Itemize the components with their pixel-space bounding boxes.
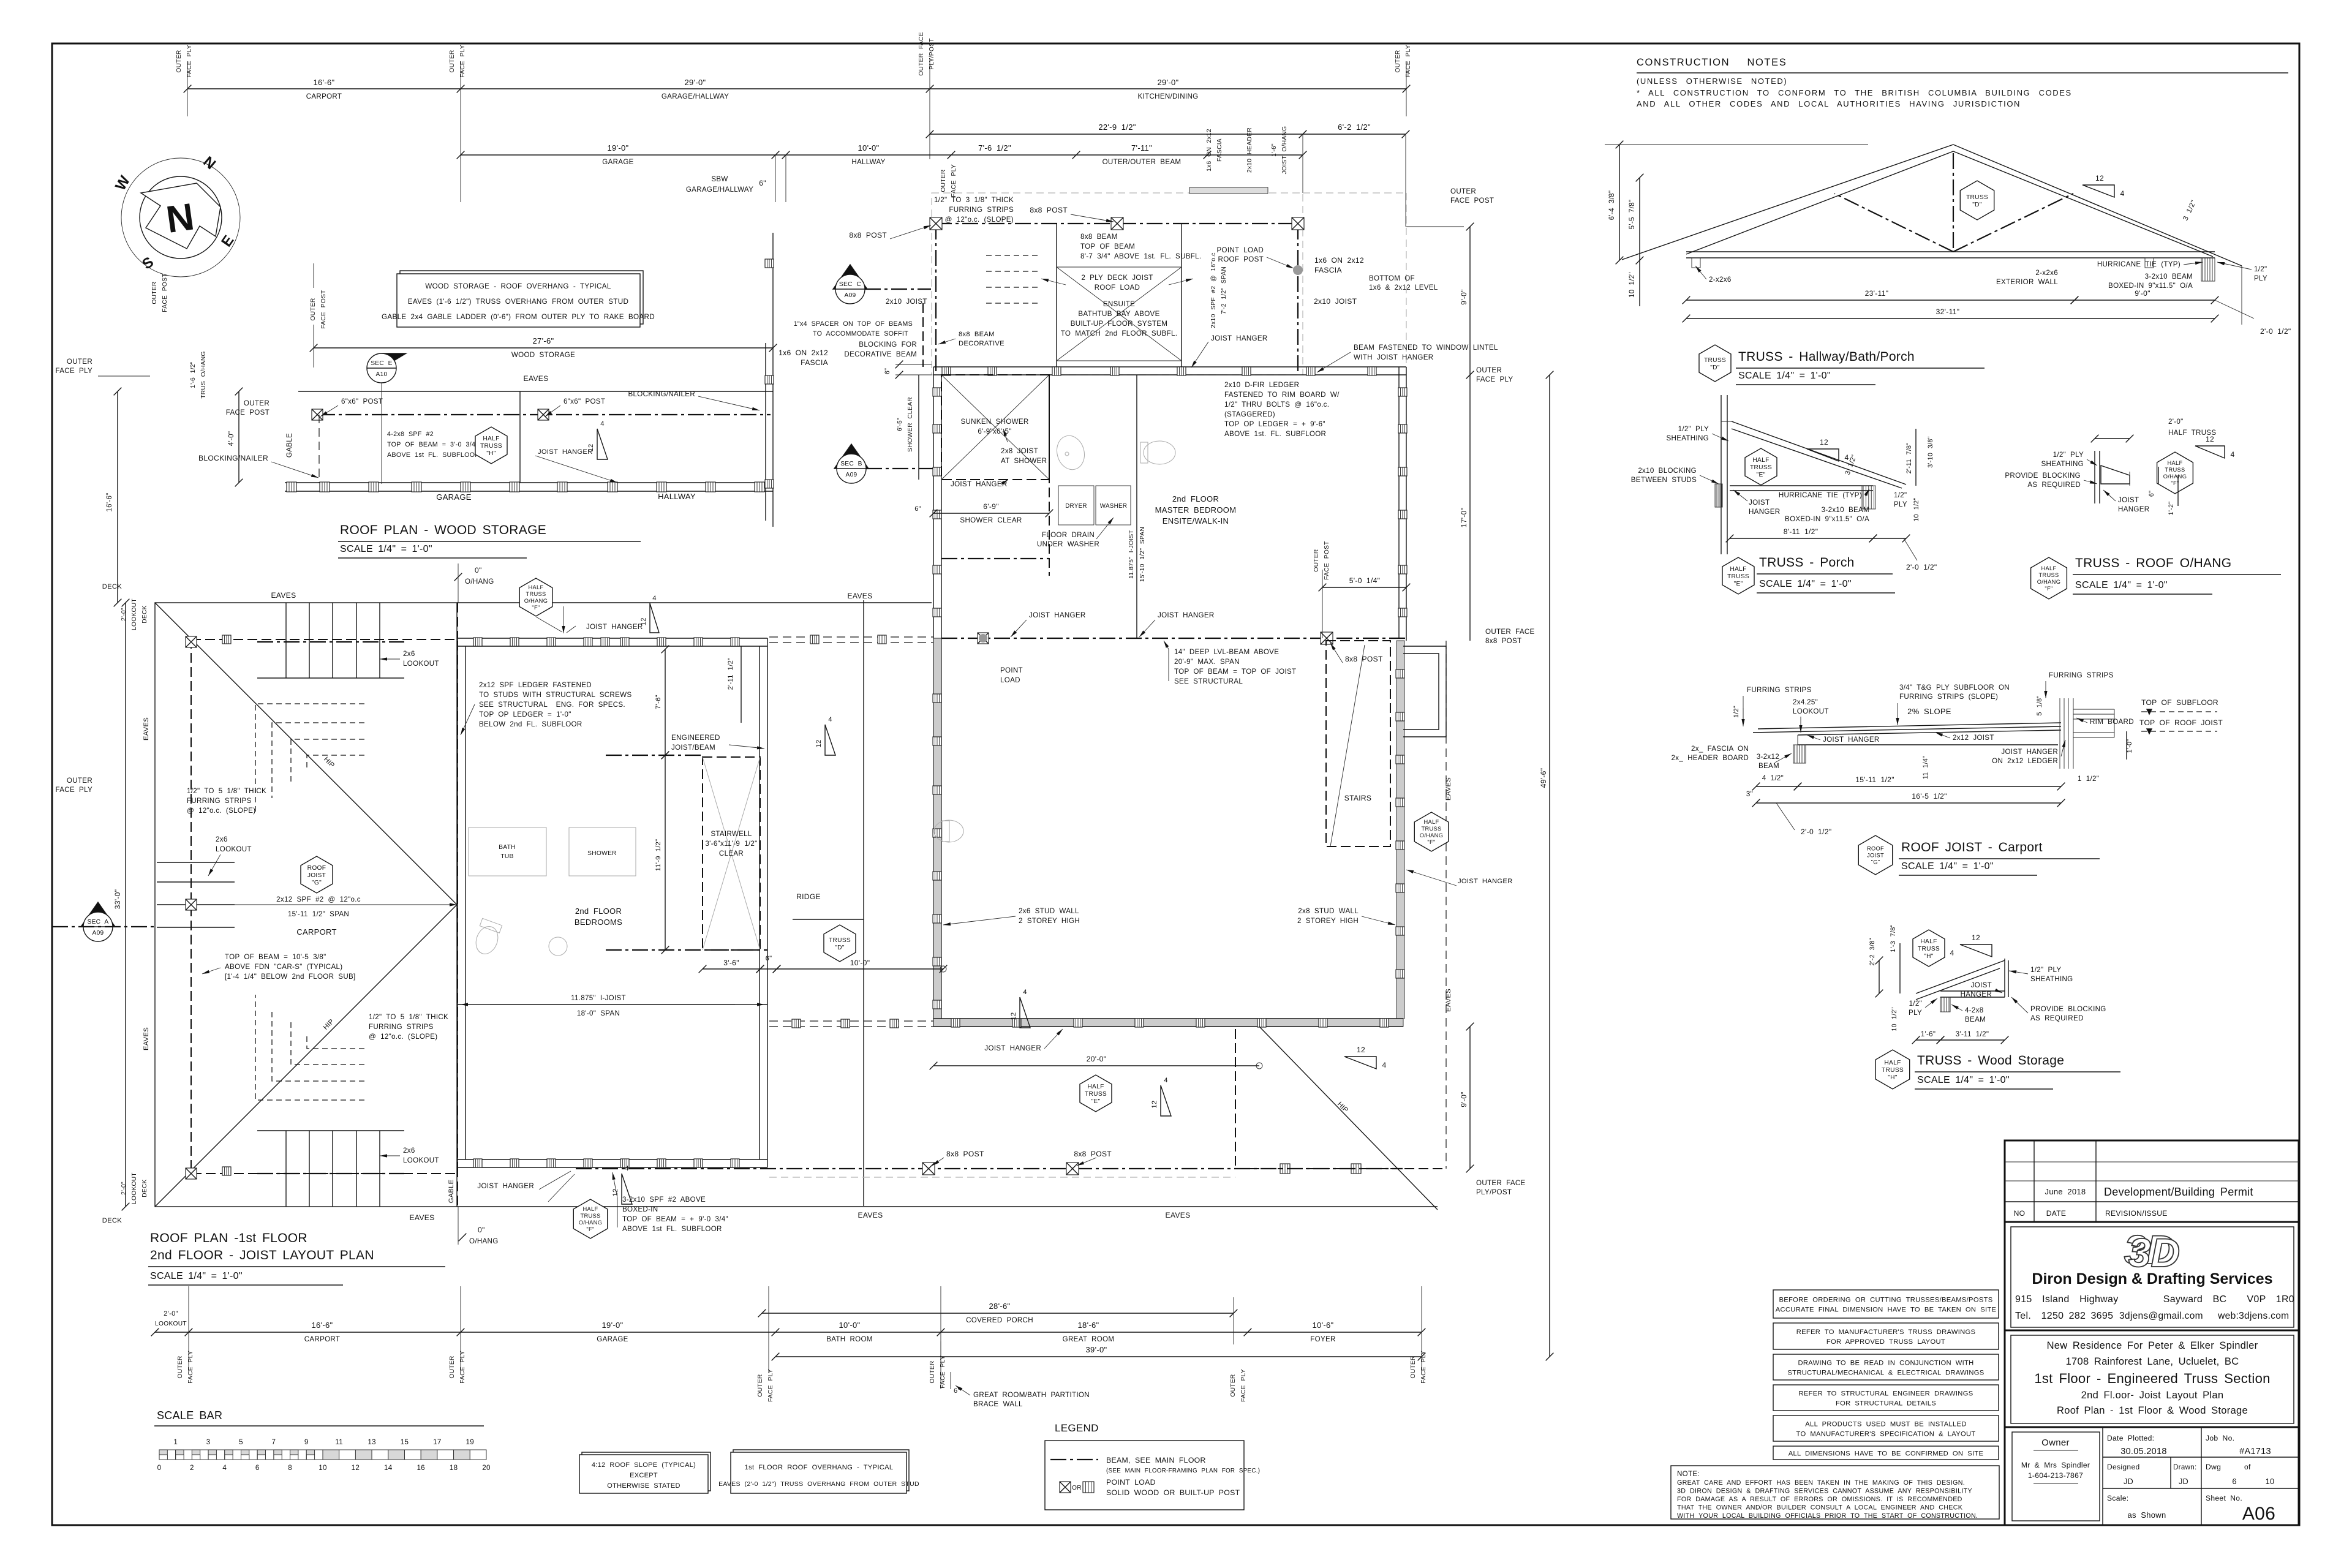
svg-text:GARAGE/HALLWAY: GARAGE/HALLWAY (686, 186, 753, 194)
svg-text:EAVES (2'-0 1/2") TRUSS OVERHA: EAVES (2'-0 1/2") TRUSS OVERHANG FROM OU… (718, 1480, 919, 1488)
svg-text:DECK: DECK (102, 583, 123, 590)
svg-text:BETWEEN STUDS: BETWEEN STUDS (1631, 476, 1697, 484)
svg-text:HALF: HALF (583, 1206, 598, 1212)
svg-text:"G": "G" (312, 880, 322, 886)
svg-text:THAT THE OWNER AND/OR BUILDER: THAT THE OWNER AND/OR BUILDER CONSULT A … (1677, 1504, 1963, 1512)
svg-text:2x8 STUD WALL: 2x8 STUD WALL (1298, 907, 1359, 915)
svg-text:FURRING STRIPS: FURRING STRIPS (1747, 686, 1812, 694)
svg-text:1/2" PLY: 1/2" PLY (1678, 425, 1709, 433)
svg-text:JOIST: JOIST (307, 872, 326, 879)
svg-text:REVISION/ISSUE: REVISION/ISSUE (2105, 1209, 2168, 1218)
svg-text:SEC A: SEC A (87, 919, 108, 925)
svg-text:BATH ROOM: BATH ROOM (826, 1335, 873, 1343)
svg-text:FASCIA: FASCIA (801, 358, 828, 367)
svg-text:WOOD STORAGE: WOOD STORAGE (511, 351, 575, 359)
svg-text:8x8 BEAM: 8x8 BEAM (959, 331, 995, 338)
svg-text:ENGINEERED: ENGINEERED (671, 734, 720, 742)
svg-text:JD: JD (2179, 1477, 2188, 1486)
svg-text:5'-0 1/4": 5'-0 1/4" (1349, 576, 1380, 585)
svg-text:10: 10 (2266, 1477, 2275, 1486)
svg-text:ENSITE/WALK-IN: ENSITE/WALK-IN (1163, 516, 1229, 526)
svg-text:2x4.25": 2x4.25" (1793, 698, 1818, 706)
svg-text:BELOW 2nd FL. SUBFLOOR: BELOW 2nd FL. SUBFLOOR (479, 720, 582, 728)
svg-text:TRUSS: TRUSS (1750, 464, 1772, 471)
svg-text:2-x2x6: 2-x2x6 (1709, 276, 1732, 284)
svg-text:3": 3" (1746, 790, 1753, 798)
svg-text:OUTER: OUTER (1476, 366, 1502, 374)
svg-text:10'-0": 10'-0" (839, 1321, 861, 1330)
svg-text:1/2" PLY: 1/2" PLY (2030, 966, 2061, 974)
svg-text:FACE PLY: FACE PLY (767, 1369, 774, 1402)
svg-text:O/HANG: O/HANG (1420, 832, 1443, 839)
svg-text:1x6 ON 2x12: 1x6 ON 2x12 (778, 349, 828, 357)
svg-text:LOOKOUT: LOOKOUT (131, 598, 138, 630)
svg-text:FOR APPROVED TRUSS LAYOUT: FOR APPROVED TRUSS LAYOUT (1826, 1338, 1945, 1346)
svg-text:1/2" TO 5 1/8" THICK: 1/2" TO 5 1/8" THICK (187, 787, 266, 795)
svg-text:OUTER: OUTER (244, 399, 269, 407)
svg-text:FACE PLY: FACE PLY (1405, 45, 1412, 78)
svg-text:GARAGE: GARAGE (597, 1335, 628, 1343)
svg-text:10'-0": 10'-0" (858, 143, 880, 153)
svg-text:TOP OF BEAM = TOP OF JOIST: TOP OF BEAM = TOP OF JOIST (1174, 668, 1296, 676)
svg-text:ROOF: ROOF (307, 865, 326, 872)
svg-text:FURRING STRIPS: FURRING STRIPS (949, 206, 1014, 214)
svg-text:7'-6": 7'-6" (655, 695, 662, 709)
svg-text:0": 0" (478, 1226, 485, 1234)
svg-text:3-2x10 BEAM: 3-2x10 BEAM (2145, 273, 2193, 281)
svg-text:6"x6" POST: 6"x6" POST (563, 398, 605, 405)
svg-text:2x10 SPF #2 @ 16"o.c: 2x10 SPF #2 @ 16"o.c (1210, 252, 1217, 328)
svg-text:17: 17 (433, 1438, 442, 1446)
svg-text:4:12 ROOF SLOPE (TYPICAL): 4:12 ROOF SLOPE (TYPICAL) (592, 1461, 696, 1469)
svg-text:1-604-213-7867: 1-604-213-7867 (2028, 1471, 2083, 1480)
svg-text:1'-2": 1'-2" (2168, 502, 2175, 516)
svg-text:SHOWER CLEAR: SHOWER CLEAR (907, 397, 914, 452)
svg-text:15'-10 1/2" SPAN: 15'-10 1/2" SPAN (1139, 527, 1146, 582)
svg-text:2% SLOPE: 2% SLOPE (1907, 707, 1951, 716)
svg-text:Development/Building Permit: Development/Building Permit (2104, 1186, 2253, 1198)
svg-text:UNDER WASHER: UNDER WASHER (1037, 540, 1099, 548)
svg-text:OUTER: OUTER (1230, 1374, 1237, 1396)
svg-text:2nd FLOOR: 2nd FLOOR (1172, 494, 1219, 503)
svg-text:2'-11 1/2": 2'-11 1/2" (727, 658, 734, 690)
svg-text:FURRING STRIPS: FURRING STRIPS (187, 797, 252, 805)
svg-text:"E": "E" (1091, 1098, 1101, 1105)
svg-text:1/2" PLY: 1/2" PLY (2053, 451, 2084, 459)
svg-text:4: 4 (1164, 1077, 1168, 1084)
svg-text:(UNLESS OTHERWISE NOTED): (UNLESS OTHERWISE NOTED) (1637, 77, 1787, 86)
svg-text:TOP OF BEAM = 10'-5 3/8": TOP OF BEAM = 10'-5 3/8" (225, 953, 326, 961)
svg-text:WOOD STORAGE - ROOF OVERHANG -: WOOD STORAGE - ROOF OVERHANG - TYPICAL (425, 282, 611, 290)
svg-text:Date Plotted:: Date Plotted: (2107, 1434, 2154, 1442)
svg-text:FACE PLY: FACE PLY (1240, 1369, 1247, 1402)
svg-text:TO ACCOMMODATE SOFFIT: TO ACCOMMODATE SOFFIT (813, 330, 908, 337)
svg-text:EXCEPT: EXCEPT (630, 1472, 658, 1479)
svg-text:4: 4 (2230, 450, 2234, 459)
svg-text:JOIST HANGER: JOIST HANGER (1158, 611, 1215, 619)
svg-text:11.875" I-JOIST: 11.875" I-JOIST (571, 994, 626, 1002)
svg-text:GREAT ROOM/BATH PARTITION: GREAT ROOM/BATH PARTITION (973, 1391, 1090, 1399)
svg-text:12: 12 (1820, 438, 1828, 447)
svg-text:19'-0": 19'-0" (602, 1321, 624, 1330)
svg-text:OUTER: OUTER (177, 1355, 184, 1378)
svg-text:"G": "G" (1871, 859, 1880, 865)
svg-text:MASTER BEDROOM: MASTER BEDROOM (1155, 505, 1237, 514)
svg-text:BEAM: BEAM (1758, 762, 1779, 770)
svg-text:HALLWAY: HALLWAY (851, 158, 885, 166)
svg-text:PLY: PLY (1909, 1009, 1922, 1017)
svg-text:13: 13 (367, 1438, 376, 1446)
svg-text:2nd FLOOR: 2nd FLOOR (575, 907, 622, 916)
svg-text:FACE PLY: FACE PLY (56, 367, 92, 375)
svg-text:#A1713: #A1713 (2239, 1447, 2271, 1457)
svg-text:TUB: TUB (500, 853, 513, 860)
svg-text:BEAM FASTENED TO WINDOW LINTEL: BEAM FASTENED TO WINDOW LINTEL (1354, 344, 1498, 352)
svg-text:Job No.: Job No. (2206, 1434, 2234, 1442)
svg-text:DECK: DECK (141, 1179, 148, 1197)
svg-text:HALF: HALF (2168, 460, 2183, 466)
svg-text:29'-0": 29'-0" (1158, 78, 1179, 87)
svg-text:8x8 POST: 8x8 POST (1030, 206, 1068, 214)
svg-text:PLY: PLY (2254, 274, 2267, 282)
svg-text:33'-0": 33'-0" (113, 889, 122, 910)
svg-text:JOIST HANGER: JOIST HANGER (538, 448, 593, 456)
svg-text:Tel. 1250 282 3695: Tel. 1250 282 3695 (2015, 1311, 2113, 1321)
svg-text:1708 Rainforest Lane, Ucluelet: 1708 Rainforest Lane, Ucluelet, BC (2066, 1356, 2239, 1367)
svg-text:BEDROOMS: BEDROOMS (575, 918, 622, 927)
svg-text:SCALE 1/4" = 1'-0": SCALE 1/4" = 1'-0" (1759, 579, 1852, 589)
svg-text:2x10 JOIST: 2x10 JOIST (886, 298, 927, 306)
svg-text:DECORATIVE BEAM: DECORATIVE BEAM (844, 350, 917, 358)
svg-text:12: 12 (1357, 1046, 1365, 1054)
svg-text:1/2": 1/2" (2254, 265, 2267, 273)
svg-text:FACE PLY: FACE PLY (1476, 375, 1513, 383)
svg-text:PLY/POST: PLY/POST (1476, 1188, 1512, 1196)
svg-text:6": 6" (914, 505, 921, 513)
svg-text:TRUSS: TRUSS (1882, 1067, 1904, 1074)
svg-text:OUTER: OUTER (757, 1374, 764, 1396)
svg-text:FACE PLY: FACE PLY (459, 45, 466, 78)
svg-text:FACE PLY: FACE PLY (187, 1351, 194, 1384)
svg-text:6'-9": 6'-9" (983, 502, 999, 511)
svg-text:HANGER: HANGER (2118, 505, 2149, 513)
svg-text:6'-4 3/8": 6'-4 3/8" (1608, 190, 1616, 221)
svg-text:ROOF JOIST - Carport: ROOF JOIST - Carport (1901, 840, 2043, 854)
svg-text:2x6: 2x6 (403, 650, 415, 658)
svg-text:2nd Fl.oor- Joist Layout Plan: 2nd Fl.oor- Joist Layout Plan (2081, 1390, 2224, 1401)
svg-text:2'-0": 2'-0" (121, 608, 127, 621)
svg-text:BOXED-IN 9"x11.5" O/A: BOXED-IN 9"x11.5" O/A (2108, 282, 2193, 290)
svg-text:JOIST O/HANG: JOIST O/HANG (1281, 126, 1288, 175)
svg-text:NO: NO (2014, 1209, 2026, 1218)
svg-text:6'-9"x6'-5": 6'-9"x6'-5" (978, 428, 1011, 435)
svg-text:10: 10 (318, 1464, 327, 1472)
svg-text:2'-2 3/8": 2'-2 3/8" (1869, 938, 1876, 965)
svg-text:ABOVE FDN "CAR-S" (TYPICAL): ABOVE FDN "CAR-S" (TYPICAL) (225, 963, 342, 971)
svg-text:@ 12"o.c. (SLOPE): @ 12"o.c. (SLOPE) (369, 1033, 437, 1041)
svg-text:ABOVE 1st. FL. SUBFLOOR: ABOVE 1st. FL. SUBFLOOR (1224, 430, 1326, 438)
svg-text:EAVES: EAVES (1445, 989, 1452, 1012)
svg-text:GABLE 2x4 GABLE LADDER (0'-6"): GABLE 2x4 GABLE LADDER (0'-6") FROM OUTE… (382, 313, 655, 321)
svg-text:BATHTUB BAY ABOVE: BATHTUB BAY ABOVE (1078, 310, 1159, 318)
svg-text:OUTER: OUTER (449, 50, 456, 72)
svg-text:NOTE:: NOTE: (1677, 1470, 1700, 1478)
svg-text:HALF: HALF (2041, 565, 2057, 571)
svg-text:EAVES: EAVES (524, 374, 549, 383)
svg-text:"E": "E" (1757, 472, 1766, 478)
svg-text:EAVES (1'-6 1/2") TRUSS OVERHA: EAVES (1'-6 1/2") TRUSS OVERHANG FROM OU… (408, 298, 628, 306)
svg-text:2x10 BLOCKING: 2x10 BLOCKING (1638, 467, 1697, 475)
svg-text:OUTER: OUTER (449, 1355, 456, 1378)
svg-text:BUILT-UP FLOOR SYSTEM: BUILT-UP FLOOR SYSTEM (1071, 320, 1167, 328)
svg-text:LOOKOUT: LOOKOUT (1793, 707, 1829, 715)
svg-text:OUTER: OUTER (67, 777, 92, 785)
svg-text:915 Island Highway: 915 Island Highway (2015, 1294, 2119, 1305)
svg-text:Drawn:: Drawn: (2173, 1463, 2197, 1471)
svg-text:AND ALL OTHER CODES AND LOCAL: AND ALL OTHER CODES AND LOCAL AUTHORITIE… (1637, 99, 2021, 108)
svg-text:1x6 ON 2x12: 1x6 ON 2x12 (1314, 256, 1364, 265)
svg-text:OR: OR (1072, 1485, 1082, 1491)
svg-text:DECK: DECK (141, 605, 148, 624)
svg-text:SCALE 1/4" = 1'-0": SCALE 1/4" = 1'-0" (150, 1271, 243, 1281)
svg-text:6'-5": 6'-5" (897, 418, 903, 431)
svg-text:TRUSS: TRUSS (1421, 826, 1441, 832)
svg-text:Roof Plan - 1st Floor & Wood S: Roof Plan - 1st Floor & Wood Storage (2057, 1405, 2248, 1416)
svg-text:1'-6 1/2": 1'-6 1/2" (190, 361, 197, 388)
svg-text:29'-0": 29'-0" (685, 78, 706, 87)
svg-text:TRUSS: TRUSS (2038, 572, 2059, 578)
svg-text:FURRING STRIPS: FURRING STRIPS (369, 1023, 434, 1031)
svg-text:16'-6": 16'-6" (105, 492, 113, 511)
svg-text:4: 4 (625, 1165, 629, 1172)
svg-text:FACE PLY: FACE PLY (459, 1351, 466, 1384)
svg-text:4-2x8: 4-2x8 (1965, 1006, 1984, 1014)
svg-text:2x12 SPF #2 @ 12"o.c: 2x12 SPF #2 @ 12"o.c (276, 895, 361, 903)
svg-text:1 1/2": 1 1/2" (2078, 775, 2099, 783)
svg-text:SEC B: SEC B (840, 461, 862, 467)
svg-text:A06: A06 (2242, 1504, 2275, 1524)
svg-text:TRUSS: TRUSS (829, 937, 851, 944)
svg-text:1/2": 1/2" (1909, 1000, 1922, 1008)
svg-text:2'-0": 2'-0" (121, 1182, 127, 1195)
svg-text:Mr & Mrs Spindler: Mr & Mrs Spindler (2021, 1461, 2090, 1469)
svg-text:PLY/POST: PLY/POST (929, 38, 935, 69)
svg-text:TRUSS - Porch: TRUSS - Porch (1759, 556, 1855, 570)
svg-text:"H": "H" (1924, 953, 1934, 960)
svg-text:2'-0 1/2": 2'-0 1/2" (1801, 827, 1831, 836)
svg-text:20'-9" MAX. SPAN: 20'-9" MAX. SPAN (1174, 658, 1240, 666)
svg-text:FACE PLY: FACE PLY (186, 45, 193, 78)
svg-text:FLOOR DRAIN: FLOOR DRAIN (1042, 531, 1095, 539)
svg-text:GABLE: GABLE (285, 433, 293, 458)
svg-text:9'-0": 9'-0" (2135, 289, 2150, 298)
svg-text:STAIRWELL: STAIRWELL (710, 830, 752, 838)
svg-text:1x6 & 2x12 LEVEL: 1x6 & 2x12 LEVEL (1369, 284, 1438, 292)
svg-text:ROOF POST: ROOF POST (1218, 255, 1264, 263)
svg-text:OUTER FACE: OUTER FACE (1485, 628, 1535, 636)
svg-text:Sheet No.: Sheet No. (2206, 1494, 2242, 1502)
svg-text:OUTER: OUTER (940, 169, 947, 192)
svg-text:EAVES: EAVES (271, 591, 296, 600)
svg-text:10'-6": 10'-6" (1313, 1321, 1334, 1330)
svg-text:"D": "D" (1710, 364, 1720, 371)
svg-text:16: 16 (417, 1464, 425, 1472)
svg-text:FACE POST: FACE POST (1324, 541, 1330, 579)
svg-text:TO STUDS WITH STRUCTURAL SCREW: TO STUDS WITH STRUCTURAL SCREWS (479, 691, 631, 699)
svg-text:4: 4 (600, 420, 605, 428)
svg-text:HALF: HALF (1424, 819, 1439, 825)
svg-text:15'-11 1/2": 15'-11 1/2" (1855, 775, 1894, 784)
svg-text:4: 4 (828, 716, 832, 723)
svg-text:June 2018: June 2018 (2045, 1187, 2086, 1196)
svg-text:14: 14 (384, 1464, 393, 1472)
svg-text:8'-7 3/4" ABOVE 1st. FL. SUBFL: 8'-7 3/4" ABOVE 1st. FL. SUBFL. (1080, 252, 1201, 260)
svg-text:HURRICANE TIE (TYP): HURRICANE TIE (TYP) (2097, 260, 2180, 268)
svg-text:SOLID WOOD OR BUILT-UP POST: SOLID WOOD OR BUILT-UP POST (1106, 1488, 1240, 1497)
svg-text:O/HANG: O/HANG (465, 578, 494, 586)
svg-text:12: 12 (2095, 174, 2104, 183)
svg-text:SEC C: SEC C (839, 281, 861, 288)
svg-text:HALF: HALF (483, 435, 499, 442)
svg-text:BEAM: BEAM (1965, 1016, 1986, 1023)
svg-text:3'-10 3/8": 3'-10 3/8" (1927, 436, 1934, 468)
svg-text:JOIST: JOIST (1749, 499, 1770, 507)
svg-text:1'-0": 1'-0" (2126, 739, 2133, 753)
svg-text:TRUSS: TRUSS (1966, 194, 1988, 201)
svg-text:ALL DIMENSIONS HAVE TO BE CONF: ALL DIMENSIONS HAVE TO BE CONFIRMED ON S… (1789, 1450, 1984, 1458)
svg-text:Sayward BC V0P 1R0: Sayward BC V0P 1R0 (2163, 1294, 2294, 1305)
svg-text:OUTER FACE: OUTER FACE (1476, 1179, 1526, 1187)
svg-text:CLEAR: CLEAR (719, 850, 744, 858)
svg-text:5: 5 (239, 1438, 243, 1446)
svg-text:1/2": 1/2" (1733, 706, 1740, 718)
svg-text:HALLWAY: HALLWAY (658, 492, 696, 501)
svg-text:2: 2 (190, 1464, 194, 1472)
svg-text:7'-11": 7'-11" (1131, 143, 1152, 153)
svg-text:16'-5 1/2": 16'-5 1/2" (1912, 792, 1947, 801)
svg-text:49'-6": 49'-6" (1539, 768, 1548, 788)
svg-text:O/HANG: O/HANG (2163, 473, 2187, 480)
svg-text:A09: A09 (844, 292, 856, 299)
svg-text:LOOKOUT: LOOKOUT (403, 660, 439, 668)
svg-text:3'-11 1/2": 3'-11 1/2" (1956, 1030, 1989, 1038)
svg-text:8x8 POST: 8x8 POST (1485, 637, 1521, 645)
svg-text:O/HANG: O/HANG (2037, 579, 2060, 585)
svg-text:"F": "F" (1427, 839, 1435, 845)
svg-text:(STAGGERED): (STAGGERED) (1224, 410, 1275, 418)
svg-text:18'-6": 18'-6" (1078, 1321, 1099, 1330)
svg-text:TRUSS: TRUSS (1085, 1091, 1107, 1098)
svg-text:0": 0" (475, 566, 482, 575)
svg-text:8x8 POST: 8x8 POST (946, 1150, 984, 1158)
svg-text:4 1/2": 4 1/2" (1762, 774, 1784, 782)
svg-text:4: 4 (1382, 1061, 1386, 1069)
svg-text:GARAGE: GARAGE (602, 158, 633, 166)
svg-text:6": 6" (2148, 491, 2155, 497)
svg-text:6: 6 (255, 1464, 260, 1472)
svg-text:JOIST HANGER: JOIST HANGER (2001, 748, 2058, 756)
svg-text:TOP OP LEDGER = 1'-0": TOP OP LEDGER = 1'-0" (479, 710, 571, 718)
svg-text:GARAGE/HALLWAY: GARAGE/HALLWAY (661, 92, 729, 100)
svg-text:8x8 POST: 8x8 POST (1074, 1150, 1112, 1158)
svg-text:TRUSS - Wood Storage: TRUSS - Wood Storage (1917, 1053, 2064, 1068)
svg-text:"F": "F" (532, 605, 540, 611)
svg-text:JOIST HANGER: JOIST HANGER (477, 1182, 534, 1190)
svg-text:JOIST HANGER: JOIST HANGER (1029, 611, 1086, 619)
svg-text:JOIST HANGER: JOIST HANGER (1458, 878, 1513, 885)
svg-text:TRUS O/HANG: TRUS O/HANG (200, 351, 207, 399)
svg-text:"F": "F" (2045, 586, 2052, 592)
svg-text:20: 20 (482, 1464, 491, 1472)
svg-text:Owner: Owner (2041, 1438, 2070, 1448)
svg-text:FOR DAMAGE AS A RESULT OF ERRO: FOR DAMAGE AS A RESULT OF ERRORS OR OMIS… (1677, 1496, 1962, 1503)
svg-text:2x10 JOIST: 2x10 JOIST (1314, 297, 1357, 306)
svg-text:JOIST/BEAM: JOIST/BEAM (671, 744, 715, 752)
svg-text:SEE STRUCTURAL ENG. FOR SPECS: SEE STRUCTURAL ENG. FOR SPECS. (479, 701, 625, 709)
svg-text:SHEATHING: SHEATHING (2030, 975, 2073, 983)
svg-text:10'-0": 10'-0" (850, 959, 870, 967)
svg-text:30.05.2018: 30.05.2018 (2120, 1447, 2167, 1457)
svg-text:BOTTOM OF: BOTTOM OF (1369, 274, 1415, 282)
svg-text:HURRICANE TIE (TYP): HURRICANE TIE (TYP) (1779, 491, 1862, 499)
svg-text:GREAT CARE AND EFFORT HAS BEEN: GREAT CARE AND EFFORT HAS BEEN TAKEN IN … (1677, 1479, 1965, 1487)
svg-text:3-2x10 BEAM: 3-2x10 BEAM (1822, 506, 1869, 514)
svg-text:8x8 BEAM: 8x8 BEAM (1080, 233, 1118, 241)
svg-text:2 STOREY HIGH: 2 STOREY HIGH (1297, 917, 1359, 925)
svg-text:ABOVE 1st FL. SUBFLOOR: ABOVE 1st FL. SUBFLOOR (622, 1225, 722, 1233)
svg-text:22'-9 1/2": 22'-9 1/2" (1098, 123, 1136, 132)
svg-text:15'-11 1/2" SPAN: 15'-11 1/2" SPAN (288, 910, 349, 918)
svg-text:FURRING STRIPS (SLOPE): FURRING STRIPS (SLOPE) (1899, 693, 1998, 701)
svg-text:4: 4 (1023, 989, 1027, 996)
svg-text:3-2x10 SPF #2 ABOVE: 3-2x10 SPF #2 ABOVE (622, 1196, 706, 1204)
svg-text:TRUSS: TRUSS (480, 443, 502, 450)
svg-text:12: 12 (1010, 1012, 1017, 1020)
svg-text:O/HANG: O/HANG (524, 598, 548, 604)
svg-text:OUTER: OUTER (929, 1360, 936, 1383)
svg-text:3: 3 (206, 1438, 211, 1446)
svg-text:2x8 JOIST: 2x8 JOIST (1001, 447, 1038, 455)
svg-text:LOOKOUT: LOOKOUT (155, 1321, 187, 1327)
svg-text:TRUSS: TRUSS (526, 591, 546, 597)
svg-text:1/2" TO 3 1/8" THICK: 1/2" TO 3 1/8" THICK (934, 196, 1014, 204)
svg-text:JOIST: JOIST (1971, 981, 1992, 989)
svg-text:EAVES: EAVES (143, 717, 150, 741)
svg-text:2'-0": 2'-0" (164, 1310, 178, 1317)
svg-text:JOIST: JOIST (1867, 853, 1884, 859)
svg-text:COVERED PORCH: COVERED PORCH (966, 1316, 1033, 1324)
svg-text:DECORATIVE: DECORATIVE (959, 340, 1005, 347)
svg-text:POINT LOAD: POINT LOAD (1216, 246, 1264, 254)
svg-text:SCALE BAR: SCALE BAR (157, 1409, 222, 1422)
svg-text:FURRING STRIPS: FURRING STRIPS (2049, 671, 2114, 679)
svg-text:18'-0" SPAN: 18'-0" SPAN (577, 1009, 620, 1017)
svg-text:TRUSS - ROOF O/HANG: TRUSS - ROOF O/HANG (2075, 556, 2231, 570)
svg-text:5'-5 7/8": 5'-5 7/8" (1628, 200, 1636, 230)
svg-text:OUTER: OUTER (1410, 1355, 1417, 1378)
svg-text:2'-0": 2'-0" (2168, 418, 2184, 426)
svg-text:8x8 POST: 8x8 POST (1345, 655, 1383, 663)
svg-text:ALL PRODUCTS USED MUST BE INST: ALL PRODUCTS USED MUST BE INSTALLED (1805, 1421, 1966, 1428)
svg-text:HANGER: HANGER (1961, 990, 1992, 998)
svg-text:8'-11 1/2": 8'-11 1/2" (1784, 527, 1819, 536)
svg-text:OUTER: OUTER (1450, 187, 1476, 195)
svg-text:6"x6" POST: 6"x6" POST (341, 398, 383, 405)
svg-text:10 1/2": 10 1/2" (1628, 272, 1636, 298)
svg-text:SHEATHING: SHEATHING (1667, 434, 1709, 442)
svg-text:GARAGE: GARAGE (436, 492, 471, 502)
svg-text:OUTER: OUTER (1313, 549, 1320, 571)
